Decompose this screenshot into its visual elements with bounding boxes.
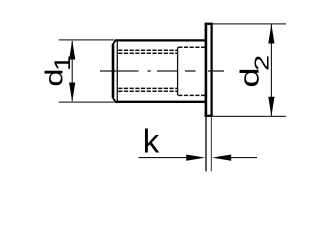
d1 extension line top — [59, 39, 114, 41]
d2 dimension line — [270, 25, 272, 116]
d1 extension line bottom — [59, 101, 114, 103]
flange top edge — [205, 23, 213, 25]
svg-text:2: 2 — [251, 55, 273, 71]
k extension line right — [210, 117, 212, 172]
center line — [100, 70, 224, 72]
flange left face — [205, 23, 208, 117]
thread hidden lines (internal thread) — [118, 50, 177, 91]
flange right face — [211, 23, 213, 117]
bore top hidden line — [178, 46, 205, 48]
k dimension line right — [231, 157, 257, 159]
d1 arrow top — [69, 40, 75, 59]
k extension line left — [205, 117, 207, 172]
chamfer edge line — [116, 41, 118, 102]
svg-text:d: d — [41, 69, 69, 87]
d1 arrow bottom — [69, 83, 75, 102]
k dimension line left — [139, 157, 188, 159]
bore left edge — [177, 47, 179, 95]
svg-text:1: 1 — [51, 55, 75, 71]
d2 extension line bottom — [213, 115, 286, 117]
k arrow right — [212, 155, 231, 161]
bore bottom hidden line — [178, 94, 205, 96]
d2 extension line top — [213, 23, 286, 25]
body left edge — [112, 45, 115, 98]
k arrow left — [186, 155, 205, 161]
flange bottom edge — [205, 115, 213, 117]
top chamfer — [112, 40, 116, 45]
d2 arrow top — [268, 24, 274, 43]
d2 arrow bottom — [268, 97, 274, 116]
body bottom edge — [115, 101, 205, 103]
body top edge — [115, 39, 205, 41]
bottom chamfer — [112, 97, 116, 103]
svg-text:k: k — [143, 123, 160, 160]
d1 dimension line — [71, 41, 73, 101]
